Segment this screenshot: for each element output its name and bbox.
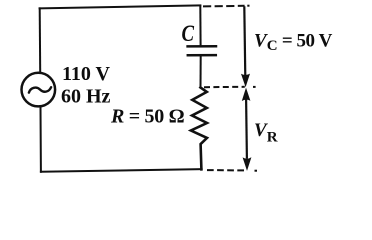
svg-text:VR: VR [254, 120, 278, 146]
svg-text:C: C [182, 21, 195, 46]
svg-text:110 V: 110 V [62, 63, 111, 85]
svg-text:60 Hz: 60 Hz [61, 85, 111, 107]
svg-text:R = 50 Ω: R = 50 Ω [110, 105, 185, 127]
svg-text:VC = 50 V: VC = 50 V [254, 31, 333, 55]
